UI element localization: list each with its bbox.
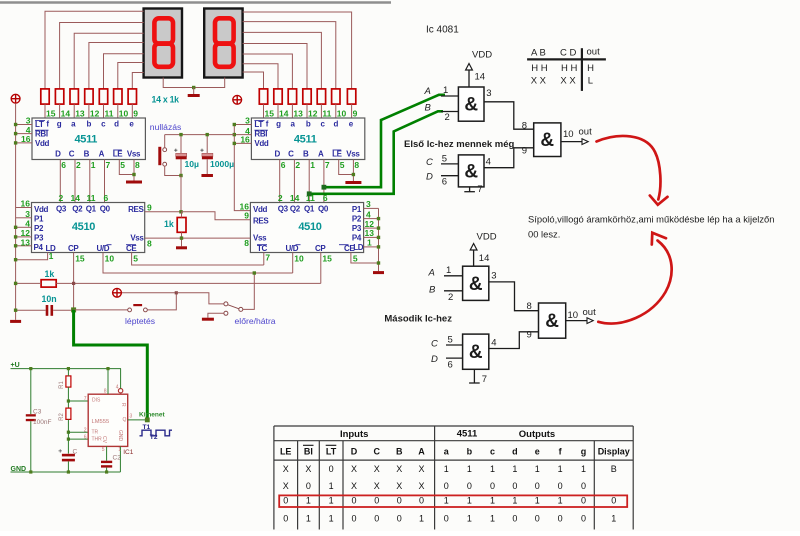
svg-text:3: 3 <box>25 209 30 219</box>
svg-text:B: B <box>303 150 309 159</box>
svg-text:0: 0 <box>283 495 288 505</box>
wire U3 CP down <box>73 253 75 310</box>
svg-text:A: A <box>99 150 105 159</box>
svg-text:Q: Q <box>123 417 127 423</box>
svg-text:C: C <box>288 150 294 159</box>
svg-text:Q0: Q0 <box>318 204 329 213</box>
svg-text:B: B <box>396 446 403 456</box>
svg-text:LT: LT <box>254 120 263 129</box>
svg-text:P2: P2 <box>34 224 44 233</box>
svg-text:nullázás: nullázás <box>150 122 182 132</box>
svg-text:C: C <box>431 339 438 350</box>
wire left R3 to 4511 IC1 pin <box>73 104 75 118</box>
resistor R15 1k vertical <box>177 218 186 233</box>
svg-text:CP: CP <box>68 244 79 253</box>
wire rail to C6 <box>16 309 46 311</box>
svg-text:b: b <box>306 120 311 129</box>
capacitor C1 timing <box>62 454 75 462</box>
pin 1 input A of U5A <box>424 85 459 97</box>
svg-text:b: b <box>467 446 473 456</box>
svg-text:3: 3 <box>486 88 491 99</box>
wire nullazas rail to U4 Vdd <box>234 125 250 211</box>
svg-text:X: X <box>351 481 357 491</box>
svg-text:Q2: Q2 <box>290 204 301 213</box>
resistor R16 1k horizontal <box>41 280 56 287</box>
svg-text:7: 7 <box>84 396 87 402</box>
AND gate U6B (second IC) <box>463 334 489 369</box>
junction GND/C3 <box>29 470 32 473</box>
svg-text:1: 1 <box>444 495 449 505</box>
table data row 3 <box>283 495 616 505</box>
wire U3 RES pin 9 <box>145 211 181 213</box>
junction RES net <box>179 210 182 213</box>
pin labels P1 P2 P3 P4 LD of U4 <box>352 205 364 252</box>
waveform symbol T1 T2 <box>140 430 173 436</box>
svg-text:X: X <box>283 481 289 491</box>
wire IC1 pin 5 to C2 <box>106 446 108 460</box>
svg-text:4: 4 <box>116 384 119 390</box>
AND gate U5A (first IC) <box>458 87 484 121</box>
IC1 pin 8 wire <box>107 369 109 395</box>
junction rail/U1.4 <box>14 132 17 135</box>
svg-text:4511: 4511 <box>294 133 317 145</box>
pin numbers 2 14 11 6 of U3 top <box>59 193 109 203</box>
ground left rail <box>10 320 21 323</box>
wire U4 CE pin 5 to ground rail <box>351 253 379 264</box>
wire right R9 to 4511 IC2 pin <box>335 104 337 118</box>
svg-text:6: 6 <box>61 160 66 170</box>
wire U4 right pin 3 <box>363 207 378 209</box>
AND gate U6C output (second IC) <box>539 303 566 338</box>
svg-text:D: D <box>55 150 61 159</box>
wire right R12 to 4511 IC2 pin <box>291 104 293 118</box>
svg-text:1: 1 <box>329 495 334 505</box>
svg-text:Vss: Vss <box>346 150 360 159</box>
svg-text:DIS: DIS <box>92 398 101 404</box>
svg-text:0: 0 <box>512 481 517 491</box>
svg-text:13: 13 <box>75 109 85 119</box>
wire right R8 to 4511 IC2 pin <box>351 104 353 118</box>
wire C5 bottom <box>206 159 208 174</box>
svg-text:Második Ic-hez: Második Ic-hez <box>384 314 452 325</box>
pin numbers 3 4 12 13 1 of U4 right <box>365 199 375 248</box>
svg-text:out: out <box>583 307 597 318</box>
svg-text:R2: R2 <box>59 413 65 421</box>
wire +U rail <box>11 368 122 370</box>
svg-text:C3: C3 <box>33 408 42 415</box>
svg-text:g: g <box>57 120 62 129</box>
junction U1 Vss <box>132 173 135 176</box>
svg-text:3: 3 <box>130 414 133 420</box>
svg-text:0: 0 <box>351 513 356 523</box>
svg-text:&: & <box>469 274 483 295</box>
svg-text:D: D <box>351 446 358 456</box>
svg-text:1: 1 <box>329 513 334 523</box>
svg-text:2: 2 <box>448 292 453 303</box>
svg-text:1: 1 <box>581 464 586 474</box>
svg-text:&: & <box>545 311 559 332</box>
wire U1 C to U3 Q <box>74 160 76 203</box>
svg-text:LT: LT <box>35 120 44 129</box>
svg-text:CV: CV <box>101 436 107 444</box>
svg-text:0: 0 <box>444 481 449 491</box>
svg-text:0: 0 <box>558 513 563 523</box>
svg-text:5: 5 <box>448 334 453 345</box>
ground U4 right rail <box>373 271 384 274</box>
red arrow from U6C out to note <box>598 241 671 324</box>
wire DIS1 segment c to resistor <box>104 54 144 89</box>
svg-text:0: 0 <box>419 495 424 505</box>
svg-text:1: 1 <box>444 464 449 474</box>
svg-text:14: 14 <box>479 253 490 264</box>
svg-text:1: 1 <box>367 238 372 248</box>
svg-text:B: B <box>425 102 432 113</box>
junction C4 bottom <box>179 174 182 177</box>
svg-text:C: C <box>69 150 75 159</box>
resistor bank right R8 (1k) <box>347 89 355 104</box>
resistor bank left R6 (1k) <box>114 89 122 104</box>
svg-text:2: 2 <box>59 193 64 203</box>
table 4511 truth table grid <box>274 426 633 530</box>
svg-text:1: 1 <box>467 464 472 474</box>
svg-text:0: 0 <box>467 481 472 491</box>
svg-text:2: 2 <box>278 193 283 203</box>
svg-text:15: 15 <box>265 109 275 119</box>
svg-text:R: R <box>120 403 126 407</box>
wire R2 bottom <box>67 419 69 453</box>
svg-text:Első Ic-hez mennek még: Első Ic-hez mennek még <box>404 139 515 150</box>
resistor bank left R3 (1k) <box>70 89 78 104</box>
svg-text:9: 9 <box>244 211 249 221</box>
svg-text:TR: TR <box>92 430 99 436</box>
junction display common <box>192 86 195 89</box>
svg-text:g: g <box>276 120 281 129</box>
svg-text:0: 0 <box>397 495 402 505</box>
AND gate U5C output (first IC) <box>534 123 561 157</box>
resistor bank right R9 (1k) <box>332 89 340 104</box>
wire U3 pin 3 <box>16 217 32 219</box>
svg-text:00 lesz.: 00 lesz. <box>528 229 560 240</box>
svg-text:P2: P2 <box>352 215 362 224</box>
output pin 10 of U5C with arrow <box>561 126 592 144</box>
pin labels LD CP U/D CE of U3 <box>46 244 138 253</box>
svg-text:14: 14 <box>475 72 486 83</box>
svg-text:14: 14 <box>61 109 71 119</box>
resistor bank left R2 (1k) <box>55 89 63 104</box>
output pin 10 of U6C with arrow <box>566 307 596 324</box>
svg-text:14: 14 <box>71 193 81 203</box>
svg-text:d: d <box>114 120 119 129</box>
svg-text:7: 7 <box>325 160 330 170</box>
pin labels LT RBI Vdd of U2 (right 4511) <box>254 120 269 148</box>
svg-text:X X: X X <box>531 76 547 87</box>
wire left R2 to 4511 IC1 pin <box>59 104 61 118</box>
svg-text:A: A <box>424 86 431 97</box>
gate truth table header A B C D out <box>531 47 600 59</box>
wire U1 B to U3 Q <box>89 160 91 203</box>
svg-text:7: 7 <box>477 184 482 195</box>
wire to IC1 pin 2 <box>68 431 88 433</box>
junction CP net <box>72 282 75 285</box>
wire U2 LE to Vss <box>339 160 354 175</box>
wire U3 pin 16 <box>16 207 32 209</box>
wire U1 pin 16 Vdd <box>16 142 32 144</box>
pin numbers 2 14 11 6 of U4 top <box>278 193 328 203</box>
svg-text:1: 1 <box>490 495 495 505</box>
junction U4 right rail <box>377 217 380 220</box>
svg-text:4: 4 <box>486 156 491 167</box>
wire U3 pin 13 <box>16 245 32 247</box>
wire U4 right ground rail <box>378 208 380 271</box>
wire to display ground <box>193 88 195 95</box>
svg-text:0: 0 <box>581 481 586 491</box>
svg-text:Outputs: Outputs <box>519 429 555 440</box>
wire U4 CP pin 15 <box>320 253 322 284</box>
wire U3 Vss to U4 Vss <box>145 237 250 239</box>
capacitor C5 1000u <box>200 149 213 160</box>
wire U1 LE to Vss <box>119 160 134 175</box>
svg-text:c: c <box>490 446 495 456</box>
wire green A from U4 Q0 net to gate U5A pin 1 <box>324 95 445 187</box>
wire U3 LD pin 1 <box>16 253 48 260</box>
svg-text:CE: CE <box>126 244 137 253</box>
7-segment display DIS1 showing 8 <box>144 9 182 78</box>
svg-text:2: 2 <box>295 160 300 170</box>
svg-text:T2: T2 <box>150 434 158 441</box>
ground S3 <box>202 318 214 321</box>
svg-text:X: X <box>305 464 311 474</box>
svg-text:16: 16 <box>21 134 31 144</box>
svg-text:VDD: VDD <box>477 232 497 243</box>
junction U4 right rail <box>377 245 380 248</box>
capacitor C2 <box>101 461 112 468</box>
svg-text:16: 16 <box>21 199 31 209</box>
svg-text:X: X <box>351 464 357 474</box>
svg-text:7: 7 <box>106 160 111 170</box>
svg-text:g: g <box>581 446 587 456</box>
svg-text:0: 0 <box>611 495 616 505</box>
wire U4 right pin 1 <box>363 246 378 248</box>
wire DIS2 segment d to resistor <box>243 22 336 89</box>
svg-text:15: 15 <box>75 254 85 264</box>
svg-text:1: 1 <box>611 513 616 523</box>
svg-text:4: 4 <box>366 209 371 219</box>
gate truth table row X <box>531 76 593 87</box>
svg-text:B: B <box>429 285 436 296</box>
svg-text:0: 0 <box>512 513 517 523</box>
pushbutton S1 nullazas <box>158 147 166 166</box>
wire R15 top <box>181 212 183 218</box>
IC1 pin 4 reset circle <box>118 389 122 393</box>
table header Inputs 4511 Outputs <box>340 428 555 440</box>
resistor R2 <box>66 408 71 419</box>
wire S2 to +V tap <box>122 293 176 310</box>
wire U4 right pin 4 <box>363 218 378 220</box>
wire U2 D to U4 Q <box>279 160 281 203</box>
svg-text:Q3: Q3 <box>56 204 67 213</box>
wire CP net R16 to U4 CP <box>56 282 321 284</box>
wire S1 bottom <box>165 166 181 175</box>
pin 2 input B of U5A <box>425 102 459 123</box>
wire U2 pin 3 LT <box>234 124 251 126</box>
7-segment display DIS2 showing 8 <box>204 9 242 78</box>
svg-text:IC1: IC1 <box>123 449 134 456</box>
svg-text:14: 14 <box>279 109 289 119</box>
AND gate U5B (first IC) <box>458 155 484 187</box>
junction +V tap <box>175 291 178 294</box>
pin labels f g a b c d e of U2 (right 4511) <box>266 120 354 129</box>
ground pin 7 of U5B <box>464 184 482 195</box>
wire U4 TC pin 7 <box>263 253 265 266</box>
svg-text:5: 5 <box>340 160 345 170</box>
wire DIS1 segment a to resistor <box>74 33 143 89</box>
pin 2 input B of U6A <box>429 285 463 304</box>
wire U2 B to U4 Q <box>308 160 310 203</box>
svg-text:5: 5 <box>120 160 125 170</box>
svg-text:4: 4 <box>491 337 496 348</box>
svg-text:0: 0 <box>351 495 356 505</box>
svg-text:10: 10 <box>563 129 574 140</box>
junction rail/C6 <box>14 309 17 312</box>
wire DIS1 segment e to resistor <box>132 73 143 89</box>
resistor bank left R7 (1k) <box>128 89 136 104</box>
junction U4 right rail <box>377 236 380 239</box>
pin numbers 16 9 8 of U4 left <box>240 201 250 248</box>
svg-text:100nF: 100nF <box>33 419 51 426</box>
svg-text:out: out <box>587 47 601 58</box>
pin numbers 6 2 1 7 5 8 of U1 bottom <box>61 160 140 170</box>
svg-text:BI: BI <box>304 446 313 456</box>
svg-text:9: 9 <box>147 202 152 212</box>
svg-text:előre/hátra: előre/hátra <box>235 316 276 326</box>
wire right R14 to 4511 IC2 pin <box>263 104 265 118</box>
pin 5 input C of U5B <box>426 153 458 168</box>
ground U2 Vss <box>345 181 361 184</box>
wire display common cathodes <box>163 78 225 88</box>
resistor bank right R10 (1k) <box>317 89 325 104</box>
wire DIS2 segment b to resistor <box>243 44 307 89</box>
svg-text:1: 1 <box>49 251 54 261</box>
resistor bank left R1 (1k) <box>41 89 49 104</box>
svg-text:8: 8 <box>354 160 359 170</box>
svg-text:1: 1 <box>467 513 472 523</box>
svg-text:5: 5 <box>133 254 138 264</box>
svg-text:10: 10 <box>568 310 579 321</box>
svg-text:LE: LE <box>332 150 343 159</box>
svg-text:0: 0 <box>444 513 449 523</box>
wire U2 A to U4 Q <box>323 160 325 203</box>
svg-text:&: & <box>464 161 478 182</box>
wire U1 A to U3 Q <box>104 160 106 203</box>
svg-text:1: 1 <box>329 481 334 491</box>
wire R1 to R2 <box>67 387 69 408</box>
wire to S2 leptetes <box>74 309 128 311</box>
wire right R13 to 4511 IC2 pin <box>277 104 279 118</box>
wire DIS2 segment a to resistor <box>243 54 293 89</box>
svg-text:&: & <box>469 342 483 363</box>
wire U6A out pin 3 to U6C pin 8 <box>489 282 539 311</box>
wire U1 Vss to ground <box>133 160 135 181</box>
wire C4 bottom <box>180 159 182 175</box>
capacitor C4 10u <box>174 149 187 160</box>
resistor R1 <box>66 376 71 387</box>
svg-text:Q1: Q1 <box>304 204 315 213</box>
wire rail to R16 <box>16 282 41 284</box>
svg-text:8: 8 <box>147 239 152 249</box>
svg-text:9: 9 <box>133 109 138 119</box>
junction rail/R16 <box>14 282 17 285</box>
svg-text:X: X <box>418 481 424 491</box>
svg-text:3: 3 <box>366 199 371 209</box>
IC1 output pin 3 wire <box>128 419 148 421</box>
svg-text:10: 10 <box>337 109 347 119</box>
VDD symbol U6A <box>470 232 496 267</box>
svg-text:8: 8 <box>104 389 107 395</box>
svg-text:LT: LT <box>326 446 337 456</box>
svg-text:P3: P3 <box>34 234 44 243</box>
junction U4 right rail <box>377 226 380 229</box>
junction GND/C2 <box>105 470 108 473</box>
svg-text:RBI: RBI <box>35 130 48 139</box>
wire left R5 to 4511 IC1 pin <box>103 104 105 118</box>
svg-text:RES: RES <box>128 205 144 214</box>
svg-text:Q3: Q3 <box>278 204 289 213</box>
svg-text:CP: CP <box>315 244 326 253</box>
pin labels Vdd P1 P2 P3 P4 of U3 <box>34 205 49 252</box>
svg-text:C D: C D <box>560 48 577 59</box>
svg-text:0: 0 <box>374 495 379 505</box>
svg-text:0: 0 <box>397 513 402 523</box>
svg-text:0: 0 <box>374 513 379 523</box>
svg-text:3: 3 <box>491 271 496 282</box>
wire green B from U4 Q1 net to gate U5A pin 2 <box>309 111 443 194</box>
svg-text:out: out <box>579 126 593 137</box>
wire U2 pin 4 RBI <box>234 134 251 136</box>
wire U4 right pin 13 <box>363 236 378 238</box>
svg-text:D: D <box>274 150 280 159</box>
wire U1 D to U3 Q <box>59 160 61 203</box>
svg-text:1: 1 <box>535 464 540 474</box>
svg-text:12: 12 <box>90 109 100 119</box>
svg-text:9: 9 <box>527 329 532 340</box>
wire U5B out pin 4 to U5C pin 9 <box>484 148 534 168</box>
resistor bank right R11 (1k) <box>303 89 311 104</box>
svg-text:4510: 4510 <box>72 221 95 233</box>
wire U4 U/D pin 10 <box>292 253 294 274</box>
svg-text:&: & <box>540 130 554 151</box>
svg-text:0: 0 <box>581 495 586 505</box>
wire U4 right pin 12 <box>363 227 378 229</box>
svg-text:D: D <box>426 172 433 183</box>
svg-text:11: 11 <box>105 109 114 119</box>
svg-text:6: 6 <box>84 434 87 440</box>
pin labels Vdd RES Vss of U4 <box>253 205 269 243</box>
wire right R10 to 4511 IC2 pin <box>320 104 322 118</box>
junction R1/R2/pin7 <box>67 399 70 402</box>
pin labels D C B A LE Vss of U1 (left 4511) <box>55 150 141 159</box>
wire U3 U/D to U4 U/D <box>103 253 293 274</box>
junction rail2/U2.4 <box>233 133 236 136</box>
junction +U/R1 <box>67 367 70 370</box>
wire nullazas horizontal <box>165 134 235 136</box>
svg-text:b: b <box>87 120 92 129</box>
svg-text:B: B <box>84 150 90 159</box>
pin 6 input D of U6B <box>431 354 463 371</box>
junction U2 Vss <box>352 173 355 176</box>
svg-text:LE: LE <box>113 150 124 159</box>
svg-text:B: B <box>611 464 617 474</box>
svg-text:1000µ: 1000µ <box>210 159 234 169</box>
